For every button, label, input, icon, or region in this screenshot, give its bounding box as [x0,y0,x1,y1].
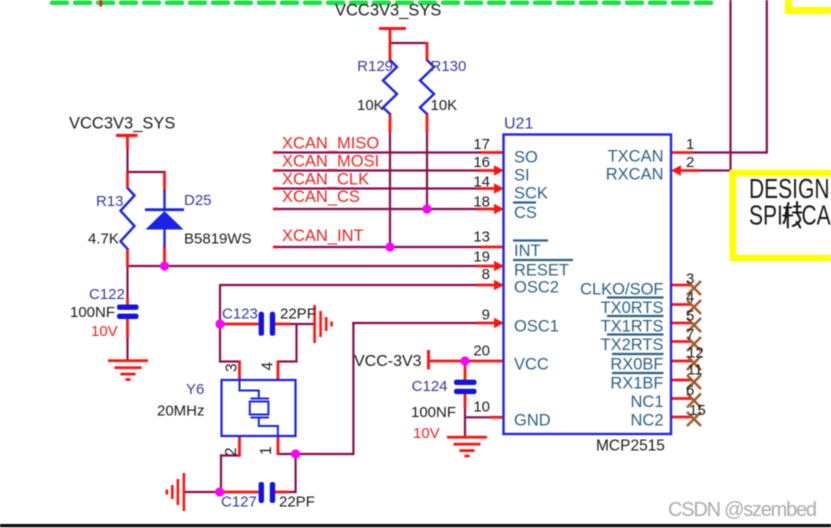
svg-text:B5819WS: B5819WS [184,231,252,248]
svg-text:17: 17 [473,136,490,153]
svg-text:10V: 10V [91,323,118,340]
svg-text:CS: CS [514,204,537,222]
svg-text:R129: R129 [357,58,393,75]
svg-text:2: 2 [686,154,694,171]
svg-text:SCK: SCK [514,185,548,203]
svg-text:10: 10 [473,399,490,416]
svg-text:SPI: SPI [749,200,783,231]
svg-text:XCAN_INT: XCAN_INT [282,227,364,245]
svg-text:18: 18 [473,194,490,211]
svg-text:5: 5 [686,308,694,325]
svg-text:XCAN_CS: XCAN_CS [282,188,360,206]
svg-text:C127: C127 [221,494,257,511]
svg-text:RX0BF: RX0BF [610,356,663,374]
svg-text:7: 7 [686,326,694,343]
svg-text:D25: D25 [184,192,212,209]
svg-text:4: 4 [260,362,277,371]
svg-text:OSC1: OSC1 [514,318,559,336]
svg-text:100NF: 100NF [411,404,456,421]
svg-text:CLKO/SOF: CLKO/SOF [580,281,663,299]
svg-text:RXCAN: RXCAN [606,166,664,184]
svg-text:4: 4 [686,289,694,306]
svg-text:VCC3V3_SYS: VCC3V3_SYS [69,115,175,133]
svg-text:TX1RTS: TX1RTS [601,318,664,336]
svg-text:3: 3 [686,271,694,288]
svg-text:MCP2515: MCP2515 [596,438,665,455]
svg-text:U21: U21 [504,116,533,133]
svg-text:4.7K: 4.7K [88,231,119,248]
svg-text:XCAN_MOSI: XCAN_MOSI [282,153,379,171]
svg-text:CSDN @szembed: CSDN @szembed [668,499,817,521]
svg-text:3: 3 [224,363,241,372]
svg-text:VCC: VCC [514,356,549,374]
svg-text:10V: 10V [413,425,440,442]
svg-text:22PF: 22PF [279,494,315,511]
svg-text:15: 15 [689,402,706,419]
svg-text:C124: C124 [412,378,448,395]
svg-text:14: 14 [473,174,490,191]
svg-text:TX0RTS: TX0RTS [601,299,664,317]
svg-text:16: 16 [473,154,490,171]
svg-text:SO: SO [514,149,538,167]
svg-text:OSC2: OSC2 [514,279,559,297]
svg-text:13: 13 [473,229,490,246]
svg-text:C122: C122 [89,286,125,303]
svg-text:C123: C123 [222,306,258,323]
svg-text:2: 2 [223,447,240,456]
svg-text:R130: R130 [431,58,467,75]
svg-text:R13: R13 [96,193,124,210]
svg-text:6: 6 [686,382,694,399]
svg-text:10K: 10K [357,97,384,114]
svg-text:TX2RTS: TX2RTS [601,336,664,354]
svg-text:SI: SI [514,167,530,185]
svg-text:RESET: RESET [514,262,569,280]
svg-text:20: 20 [473,343,490,360]
svg-text:10K: 10K [431,97,458,114]
svg-text:NC1: NC1 [630,393,663,411]
svg-text:VCC3V3_SYS: VCC3V3_SYS [335,2,441,20]
svg-text:GND: GND [514,412,551,430]
svg-text:TXCAN: TXCAN [608,148,664,166]
svg-text:CAN: CAN [802,200,831,231]
svg-text:VCC-3V3: VCC-3V3 [354,353,422,370]
svg-text:22PF: 22PF [280,306,316,323]
svg-text:19: 19 [473,249,490,266]
svg-text:11: 11 [687,362,703,379]
svg-text:INT: INT [514,242,541,260]
svg-text:Y6: Y6 [186,381,204,398]
svg-text:XCAN_CLK: XCAN_CLK [282,171,369,189]
svg-text:100NF: 100NF [70,304,115,321]
svg-text:12: 12 [687,345,704,362]
svg-text:NC2: NC2 [630,412,663,430]
svg-text:1: 1 [686,136,694,153]
svg-text:9: 9 [482,307,490,324]
svg-text:8: 8 [482,266,490,283]
svg-text:RX1BF: RX1BF [610,375,663,393]
svg-text:XCAN_MISO: XCAN_MISO [282,135,379,153]
svg-text:1: 1 [258,446,275,455]
svg-text:20MHz: 20MHz [157,403,205,420]
